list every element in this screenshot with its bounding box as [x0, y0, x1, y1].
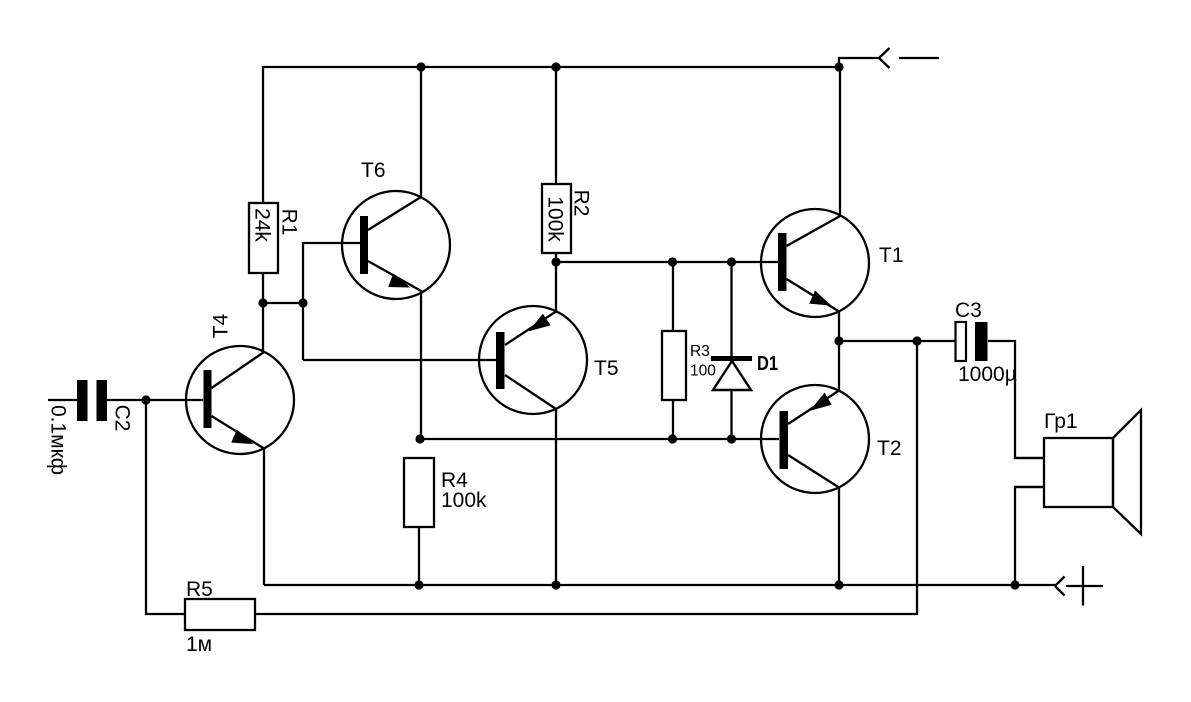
wire D1 top lead: [730, 262, 732, 356]
wire T2 collector drop: [838, 341, 840, 390]
wire T6 emitter drop: [420, 292, 422, 439]
node ground T5: [551, 580, 560, 589]
node R2 bottom: [551, 257, 560, 266]
wire T5 emitter riser: [555, 262, 557, 311]
node output feedback: [912, 336, 921, 345]
svg-text:C3: C3: [955, 299, 982, 322]
capacitor C3: [956, 322, 988, 361]
svg-text:1м: 1м: [186, 633, 212, 656]
wire T2 emitter drop: [838, 487, 840, 585]
node mid rail R3: [668, 434, 677, 443]
resistor R5: [185, 599, 255, 630]
svg-text:100k: 100k: [441, 489, 487, 512]
transistor T1: [761, 209, 869, 317]
wire feedback from C2 node down: [146, 400, 185, 614]
wire T1 emitter to output node: [838, 311, 840, 341]
transistor T5: [479, 306, 587, 414]
wire speaker bottom drop: [1015, 487, 1044, 585]
node A R1-T4: [258, 298, 267, 307]
node ground speaker: [1010, 580, 1019, 589]
transistor T2: [761, 385, 869, 493]
node mid rail D1: [727, 434, 736, 443]
wire node A to node B: [263, 302, 303, 304]
svg-text:24k: 24k: [251, 208, 274, 242]
speaker Гр1: [1014, 410, 1141, 534]
wire output node to C3: [839, 340, 955, 342]
wire R2 top lead: [555, 67, 557, 184]
resistor R2: [542, 184, 571, 253]
svg-text:100k: 100k: [544, 196, 567, 242]
svg-text:T1: T1: [879, 244, 904, 267]
wire T1 collector riser: [839, 68, 841, 215]
wire R3 top lead: [672, 262, 674, 331]
wire C2 to T4 base: [107, 399, 203, 401]
node C2 input: [141, 395, 150, 404]
svg-text:R1: R1: [278, 209, 301, 236]
svg-text:T4: T4: [209, 313, 232, 338]
wire top supply rail: [263, 67, 839, 203]
node D1 top: [727, 257, 736, 266]
wire input stub: [48, 399, 77, 401]
svg-text:T5: T5: [594, 357, 619, 380]
node top rail / R2: [551, 62, 560, 71]
node output T1-T2: [834, 336, 843, 345]
resistor R3: [662, 331, 686, 400]
wire node B to T5 base: [303, 359, 496, 361]
connector plug top right: [839, 48, 939, 68]
resistor R1: [249, 203, 278, 273]
wire C3 to speaker top: [988, 341, 1044, 458]
wire mid rail to T2 base: [421, 438, 779, 440]
node top rail / T1: [834, 62, 843, 71]
svg-text:R3: R3: [690, 343, 710, 360]
svg-text:Гр1: Гр1: [1044, 410, 1078, 433]
wire T5 collector drop: [555, 409, 557, 585]
wire R4 bottom lead: [418, 527, 420, 585]
wire R1 bottom lead to node A: [262, 273, 264, 352]
svg-text:100: 100: [690, 363, 716, 380]
wire R3 bottom lead: [672, 400, 674, 439]
node mid rail T6-R4: [415, 434, 424, 443]
node R3 top: [668, 257, 677, 266]
wire node B riser to T6 base: [303, 243, 360, 360]
svg-text:R5: R5: [186, 578, 213, 601]
node ground T2: [834, 580, 843, 589]
wire R2 bottom to T1 base rail: [556, 253, 778, 262]
node B T6 base: [298, 298, 307, 307]
connector plug bottom right: [1055, 566, 1103, 606]
wire D1 bottom lead: [730, 390, 732, 439]
svg-text:C2: C2: [111, 405, 134, 432]
transistor T4: [186, 346, 294, 454]
resistor R4: [404, 458, 434, 527]
wire R5 to output riser: [255, 341, 917, 614]
svg-text:R2: R2: [570, 190, 593, 217]
wire T4 emitter drop: [263, 448, 265, 585]
diode D1: [711, 356, 752, 390]
wire bottom ground rail: [264, 584, 1055, 586]
svg-text:1000µ: 1000µ: [958, 363, 1017, 386]
node top rail / T6: [416, 62, 425, 71]
capacitor C2: [77, 380, 107, 421]
transistor T6: [342, 191, 450, 299]
svg-text:T2: T2: [877, 437, 902, 460]
svg-text:0.1мкф: 0.1мкф: [47, 405, 70, 475]
svg-text:D1: D1: [757, 353, 778, 375]
wire T6 collector riser: [420, 67, 422, 197]
node ground R4: [414, 580, 423, 589]
svg-text:T6: T6: [361, 159, 386, 182]
